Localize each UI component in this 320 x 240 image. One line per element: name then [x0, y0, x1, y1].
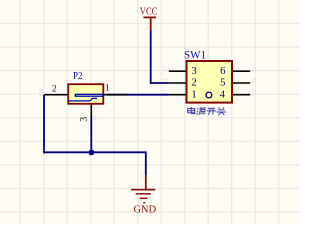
svg-text:3: 3 — [191, 65, 196, 77]
svg-text:3: 3 — [79, 117, 90, 122]
svg-text:GND: GND — [134, 203, 157, 215]
svg-text:4: 4 — [220, 88, 226, 100]
svg-text:5: 5 — [220, 77, 225, 89]
svg-text:2: 2 — [191, 77, 196, 89]
svg-text:VCC: VCC — [140, 6, 158, 18]
svg-text:P2: P2 — [73, 71, 82, 82]
svg-text:SW1: SW1 — [184, 49, 206, 61]
svg-text:1: 1 — [105, 84, 110, 94]
svg-text:6: 6 — [220, 65, 226, 77]
svg-text:2: 2 — [52, 85, 57, 95]
svg-text:1: 1 — [191, 88, 196, 100]
